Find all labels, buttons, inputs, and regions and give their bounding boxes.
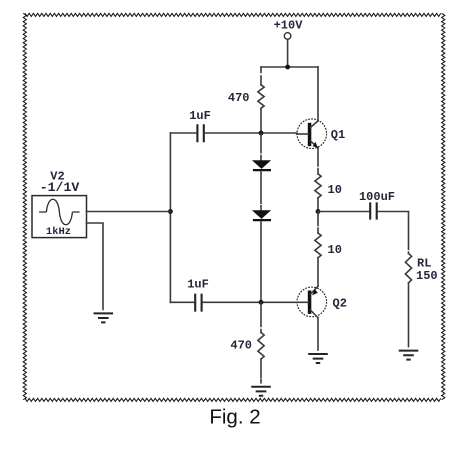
wire Q1 emitter down (317, 148, 319, 174)
svg-text:1uF: 1uF (189, 109, 211, 123)
wire left to C2 (170, 301, 194, 303)
svg-text:-1/1V: -1/1V (40, 180, 80, 195)
wire left to C1 (170, 132, 196, 134)
node junction top rail (285, 65, 290, 70)
wire 470 top lead upper (260, 67, 262, 85)
wire Q1 collector to rail (317, 67, 319, 121)
wire from +10V to top rail (287, 39, 289, 67)
node junction base rail top (259, 131, 264, 136)
wire C1 node to diode D1 (260, 133, 262, 160)
diode D2 (252, 210, 271, 220)
wire C1 to Q1 base (205, 132, 297, 134)
wire RL to ground (408, 283, 410, 347)
resistor 10 (top emitter) (315, 174, 321, 198)
svg-text:1kHz: 1kHz (46, 226, 71, 238)
svg-text:150: 150 (416, 269, 438, 283)
resistor 10 (bottom emitter) (315, 233, 321, 258)
wire output node to C3 (318, 211, 369, 213)
resistor 470 (bias, bottom) (258, 332, 264, 359)
capacitor C2 1uF (bottom) (187, 278, 209, 312)
svg-text:Q1: Q1 (331, 128, 345, 142)
svg-text:10: 10 (328, 243, 342, 257)
node output junction (316, 209, 321, 214)
transistor Q1 NPN (297, 119, 346, 149)
ground (Q2) (308, 354, 328, 363)
svg-text:10: 10 (328, 183, 342, 197)
svg-text:Q2: Q2 (333, 297, 347, 311)
source V2 sine generator (32, 170, 87, 238)
wire to output node (317, 198, 319, 212)
wire 470 top lead lower (260, 108, 262, 133)
svg-text:+10V: +10V (274, 18, 304, 32)
wire resistor to Q2 emitter (317, 258, 319, 286)
ground (bottom bias) (251, 387, 271, 396)
wire C3 to RL corner (378, 212, 409, 254)
ground (source) (94, 313, 114, 322)
wire D1 to D2 (260, 171, 262, 210)
wire V2 output (87, 211, 171, 213)
node input junction (168, 209, 173, 214)
wire top rail (261, 66, 318, 68)
resistor RL 150 (load) (405, 253, 437, 283)
power +10V terminal (274, 18, 304, 39)
svg-text:Fig. 2: Fig. 2 (209, 405, 260, 428)
diode D1 (252, 160, 271, 170)
wire node to 470 bottom (260, 302, 262, 332)
ground (load) (399, 351, 419, 360)
node junction base rail bottom (259, 300, 264, 305)
capacitor C1 1uF (top) (189, 109, 211, 142)
svg-text:470: 470 (230, 338, 252, 352)
wire V2 to ground (87, 223, 104, 310)
svg-text:1uF: 1uF (187, 278, 209, 292)
resistor 470 (bias, top) (258, 85, 264, 108)
wire D2 to lower base rail (260, 221, 262, 302)
svg-text:470: 470 (228, 91, 250, 105)
wire 470 bottom to ground (260, 359, 262, 383)
wire C2 to Q2 base (203, 301, 297, 303)
wire Q2 collector to ground (317, 318, 319, 350)
wire left branch vertical (169, 133, 171, 302)
wire output node down (317, 212, 319, 234)
capacitor C3 100uF (output) (359, 190, 395, 220)
svg-text:100uF: 100uF (359, 190, 395, 204)
transistor Q2 PNP (297, 286, 347, 318)
